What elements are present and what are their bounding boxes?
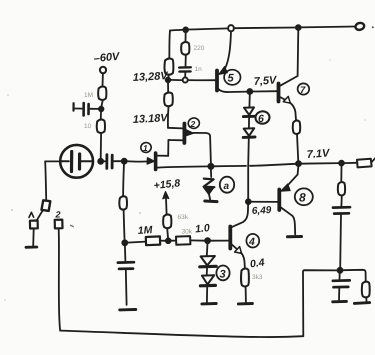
svg-text:6,49: 6,49 bbox=[252, 205, 272, 217]
svg-text:2: 2 bbox=[55, 210, 61, 220]
svg-text:4: 4 bbox=[248, 236, 255, 248]
svg-text:a: a bbox=[224, 181, 230, 192]
svg-text:3: 3 bbox=[220, 269, 226, 281]
svg-text:8: 8 bbox=[299, 191, 306, 205]
svg-text:+15,8: +15,8 bbox=[153, 177, 181, 192]
svg-text:7.1V: 7.1V bbox=[306, 147, 331, 161]
svg-text:13,28V: 13,28V bbox=[133, 70, 170, 84]
svg-text:5: 5 bbox=[228, 73, 235, 85]
svg-text:10: 10 bbox=[84, 123, 92, 130]
svg-text:3k3: 3k3 bbox=[252, 274, 263, 281]
svg-text:0.4: 0.4 bbox=[249, 257, 265, 271]
svg-text:7: 7 bbox=[300, 85, 306, 96]
svg-text:6: 6 bbox=[258, 113, 264, 125]
svg-text:30k: 30k bbox=[182, 229, 193, 236]
svg-text:1: 1 bbox=[143, 143, 148, 153]
svg-text:63k: 63k bbox=[178, 214, 189, 221]
svg-text:1M: 1M bbox=[137, 224, 153, 237]
svg-text:–60V: –60V bbox=[93, 51, 121, 65]
svg-text:1n: 1n bbox=[195, 66, 203, 73]
svg-text:13.18V: 13.18V bbox=[133, 112, 170, 126]
svg-text:1.0: 1.0 bbox=[195, 222, 211, 235]
svg-text:1M: 1M bbox=[84, 92, 93, 99]
svg-text:2: 2 bbox=[190, 119, 196, 129]
svg-text:7,5V: 7,5V bbox=[253, 74, 278, 88]
svg-text:220: 220 bbox=[194, 45, 205, 52]
